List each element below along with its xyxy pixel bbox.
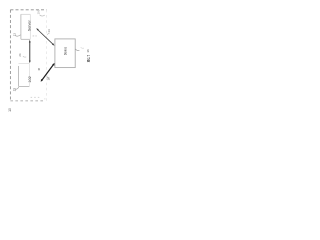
svg-text:100: 100 bbox=[37, 9, 41, 14]
wavy leader from box 16 to numeral 16 bbox=[75, 49, 79, 51]
thick diagonal double-headed arrow 18 bbox=[41, 63, 55, 82]
faint numeral marks left of thick arrow bbox=[38, 68, 40, 70]
svg-text:Server: Server bbox=[27, 19, 31, 31]
dashed system boundary box 10 bbox=[10, 10, 46, 101]
faint specks row near bottom bbox=[31, 96, 40, 99]
reference numeral 18 with leader bbox=[47, 76, 49, 79]
svg-text:18: 18 bbox=[47, 77, 51, 81]
rectangle box 12 (top-left) bbox=[21, 14, 30, 39]
svg-text:FIG. 7: FIG. 7 bbox=[86, 55, 91, 63]
rectangle box 22 (bottom-left) bbox=[19, 64, 30, 87]
svg-text:Device: Device bbox=[64, 47, 68, 55]
rectangle box 16 (right) bbox=[55, 39, 75, 68]
faint speck bbox=[44, 98, 45, 101]
svg-text:102: 102 bbox=[28, 76, 32, 83]
vertical double-headed arrow between box 12 and box 22 bbox=[29, 40, 31, 63]
svg-text:26: 26 bbox=[18, 53, 22, 57]
thin diagonal double-headed arrow 14 bbox=[36, 28, 54, 45]
svg-text:14: 14 bbox=[47, 29, 51, 33]
svg-text:16: 16 bbox=[86, 49, 90, 53]
svg-text:10: 10 bbox=[8, 108, 12, 112]
faint specks near middle of dashed box bbox=[33, 35, 37, 38]
